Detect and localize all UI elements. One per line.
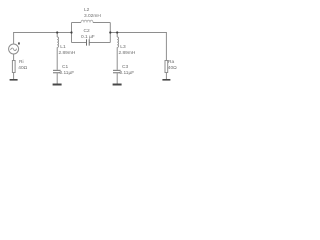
wire resistor to ground: [13, 73, 15, 80]
svg-text:0.1 µF: 0.1 µF: [81, 34, 95, 40]
svg-text:Ra: Ra: [168, 59, 174, 65]
svg-text:40Ω: 40Ω: [168, 65, 177, 71]
svg-text:C3: C3: [122, 64, 128, 70]
inductor L1 coil: [57, 37, 58, 47]
top rail right of L2: [93, 22, 110, 24]
node dot right shunt: [116, 31, 118, 33]
svg-text:L3: L3: [120, 44, 126, 50]
resistor Ra box: [165, 61, 168, 73]
svg-text:3.02mH: 3.02mH: [84, 13, 101, 19]
wire main line left segment: [13, 32, 71, 34]
svg-text:L2: L2: [84, 7, 90, 13]
capacitor C2 plates: [86, 39, 88, 45]
wire source to resistor: [13, 54, 15, 61]
inductor L2 coil: [81, 20, 93, 22]
parallel section right vertical: [109, 23, 111, 43]
resistor Ri box: [12, 61, 15, 73]
svg-text:Ri: Ri: [19, 59, 24, 65]
bottom rail left of C2: [72, 42, 87, 44]
node dot left shunt: [56, 31, 58, 33]
capacitor C1 plates: [53, 69, 61, 71]
source label mark: [18, 42, 20, 44]
source V1 circle: [9, 44, 19, 54]
source sine symbol: [11, 48, 17, 51]
capacitor C3 plates: [113, 69, 121, 71]
parallel section left vertical: [71, 23, 73, 43]
ground right shunt: [113, 84, 122, 86]
wire right shunt top: [116, 33, 118, 38]
wire left shunt top: [56, 33, 58, 38]
svg-text:L1: L1: [60, 44, 66, 50]
svg-text:2.89mH: 2.89mH: [119, 50, 136, 56]
svg-text:2.89mH: 2.89mH: [59, 50, 76, 56]
wire main line right segment: [110, 32, 167, 34]
svg-text:C1: C1: [62, 64, 68, 70]
bottom rail right of C2: [90, 42, 111, 44]
svg-text:0.11µF: 0.11µF: [120, 70, 135, 76]
wire C1 to ground: [56, 73, 58, 84]
node dot parallel left: [70, 31, 72, 33]
ground left shunt: [53, 84, 62, 86]
wire L3 to C3: [116, 47, 118, 69]
svg-text:40Ω: 40Ω: [18, 65, 27, 71]
wire C3 to ground: [116, 73, 118, 84]
svg-text:C2: C2: [84, 28, 90, 34]
inductor L3 coil: [117, 37, 118, 47]
wire source drop: [13, 33, 15, 44]
wire load drop: [165, 33, 167, 61]
node dot parallel right: [109, 31, 111, 33]
top rail left of L2: [72, 22, 82, 24]
svg-text:0.11µF: 0.11µF: [60, 70, 75, 76]
ground source: [10, 79, 18, 81]
wire L1 to C1: [56, 47, 58, 69]
wire load to ground: [165, 73, 167, 80]
ground load: [162, 79, 170, 81]
